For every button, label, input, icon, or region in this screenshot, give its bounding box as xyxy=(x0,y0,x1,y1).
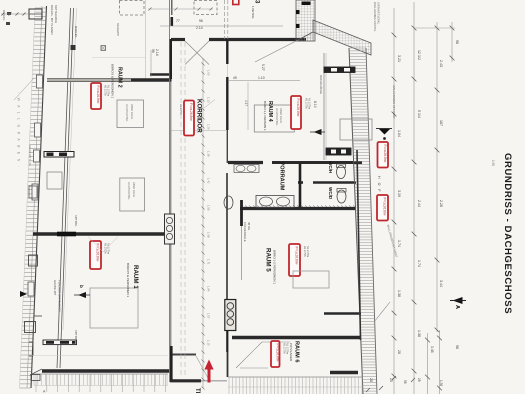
svg-text:b: b xyxy=(79,285,84,288)
svg-text:1.10: 1.10 xyxy=(258,76,265,80)
small x-box marker xyxy=(101,46,106,51)
svg-text:VORRAUM: VORRAUM xyxy=(279,162,285,191)
shaft right w/ circles xyxy=(225,300,236,331)
wall W9 WC/H-WC/D xyxy=(298,181,303,184)
RAUM6 diagonal leaders xyxy=(236,342,262,368)
svg-text:WALLGRABEN FIRSTPL.: WALLGRABEN FIRSTPL. xyxy=(373,2,377,32)
door swing RAUM1 xyxy=(88,237,103,253)
svg-text:IM DG: IM DG xyxy=(247,222,251,230)
red area boxes xyxy=(91,83,101,109)
svg-text:- W A L L G R A B E N -: - W A L L G R A B E N - xyxy=(17,92,21,169)
svg-text:1.00: 1.00 xyxy=(207,70,211,76)
wall stub x240 xyxy=(240,200,243,226)
wall corridor left xyxy=(169,0,171,382)
wall W10 top of RAUM5 xyxy=(240,207,355,210)
svg-text:1.84: 1.84 xyxy=(207,286,211,292)
svg-text:TI: TI xyxy=(194,388,200,394)
svg-text:3.45: 3.45 xyxy=(430,346,434,353)
left band bay steps xyxy=(36,75,42,88)
svg-text:1.04: 1.04 xyxy=(397,130,401,137)
svg-text:WC/D: WC/D xyxy=(328,187,333,200)
WC fixtures xyxy=(337,166,346,179)
svg-text:1.55: 1.55 xyxy=(207,205,211,211)
lower window beam bar xyxy=(43,340,77,345)
svg-text:ÜBER DACH: ÜBER DACH xyxy=(132,182,136,197)
RAUM5 rooflight xyxy=(293,271,329,288)
svg-text:RAUM 2: RAUM 2 xyxy=(117,67,123,88)
svg-text:1.68: 1.68 xyxy=(207,232,211,238)
svg-text:1.42: 1.42 xyxy=(207,178,211,184)
svg-text:96: 96 xyxy=(199,19,203,23)
corridor dashed lines xyxy=(180,42,182,378)
svg-text:4.17: 4.17 xyxy=(244,100,248,106)
svg-text:5 1/4: 5 1/4 xyxy=(417,110,421,118)
svg-text:1.38: 1.38 xyxy=(439,380,443,386)
wall W8 top of VORRAUM/WC xyxy=(228,161,263,164)
wall corridor right xyxy=(224,0,226,39)
RAUM4 right wall xyxy=(323,53,325,160)
dimension line D1 xyxy=(393,8,395,394)
wall VORRAUM/WC divider xyxy=(299,163,302,207)
svg-text:96: 96 xyxy=(403,380,407,384)
svg-text:28: 28 xyxy=(369,378,373,382)
svg-text:77: 77 xyxy=(176,19,180,23)
right inner wall line xyxy=(357,150,361,340)
svg-text:1.10: 1.10 xyxy=(207,340,211,346)
section marker a2 xyxy=(376,128,392,130)
svg-text:F=ca.26.8m²: F=ca.26.8m² xyxy=(189,103,193,121)
svg-text:28: 28 xyxy=(417,378,421,382)
svg-text:BÜRO 5 & PERSONEN 1: BÜRO 5 & PERSONEN 1 xyxy=(111,64,115,99)
svg-text:1.13: 1.13 xyxy=(207,97,211,103)
svg-text:1 NETZFL: 1 NETZFL xyxy=(251,6,255,19)
section marker A right xyxy=(453,297,463,304)
svg-text:F=ca.26.8m²: F=ca.26.8m² xyxy=(383,198,387,216)
svg-text:KORRIDOR: KORRIDOR xyxy=(196,99,203,133)
svg-text:RAUM 5: RAUM 5 xyxy=(265,248,272,272)
wall W11 corridor south xyxy=(172,354,196,356)
svg-text:SPITZBD.: SPITZBD. xyxy=(74,215,78,227)
wall W3 RAUM2/RAUM1 xyxy=(33,232,171,235)
svg-text:GAUBE MIT: GAUBE MIT xyxy=(53,280,57,296)
svg-text:BÜRO 1-2 PERSONEN 1: BÜRO 1-2 PERSONEN 1 xyxy=(273,250,277,284)
svg-text:1.39: 1.39 xyxy=(207,151,211,157)
svg-text:KÜCHENZEILE: KÜCHENZEILE xyxy=(243,222,247,242)
chimney bar 1 xyxy=(324,67,355,73)
section marker b right xyxy=(78,292,86,298)
svg-text:1.38: 1.38 xyxy=(417,330,421,337)
svg-text:98: 98 xyxy=(455,345,459,349)
svg-text:PUTZLAGER: PUTZLAGER xyxy=(289,343,293,362)
svg-text:1.74: 1.74 xyxy=(397,240,401,247)
svg-text:WC/H: WC/H xyxy=(328,161,333,174)
svg-text:FLACHEN SATTELDACH: FLACHEN SATTELDACH xyxy=(58,280,62,312)
svg-text:28: 28 xyxy=(397,350,401,354)
svg-text:GRUNDRISS - DACHGESCHOSS: GRUNDRISS - DACHGESCHOSS xyxy=(502,153,513,314)
right exterior hatched band xyxy=(349,48,363,394)
section marker a1 xyxy=(314,129,322,135)
corridor center dim column xyxy=(202,58,204,388)
svg-text:2.44: 2.44 xyxy=(417,200,421,207)
svg-text:RAUM 1: RAUM 1 xyxy=(132,265,139,289)
svg-text:1.38: 1.38 xyxy=(397,290,401,297)
svg-text:2.14: 2.14 xyxy=(155,49,159,56)
diagonal roof band xyxy=(313,20,371,55)
svg-text:DACHFL.: DACHFL. xyxy=(74,26,78,39)
svg-text:F=ca.26.8m²: F=ca.26.8m² xyxy=(295,247,299,265)
svg-text:NL 2.70m: NL 2.70m xyxy=(107,85,111,96)
svg-text:187: 187 xyxy=(439,120,443,126)
wall W2 top of RAUM2 xyxy=(47,78,131,81)
svg-text:1.71: 1.71 xyxy=(207,259,211,265)
svg-text:1.26: 1.26 xyxy=(207,124,211,130)
red north arrow xyxy=(204,360,213,383)
svg-text:F=ca.26.8m²: F=ca.26.8m² xyxy=(383,145,387,163)
svg-text:ÜBER DACH: ÜBER DACH xyxy=(279,108,283,123)
wall: left inner face xyxy=(57,8,71,368)
chimney bar 2 xyxy=(326,148,351,155)
svg-text:3.21: 3.21 xyxy=(397,55,401,62)
svg-text:GAUBE MIT FL.SD.: GAUBE MIT FL.SD. xyxy=(28,145,31,167)
basins top vorraum xyxy=(234,165,259,173)
svg-text:2.28: 2.28 xyxy=(439,200,443,207)
svg-text:RAUM 6: RAUM 6 xyxy=(294,341,300,362)
svg-text:ÜBER DACH: ÜBER DACH xyxy=(130,104,134,119)
svg-text:5.27: 5.27 xyxy=(261,64,265,71)
svg-text:2.43: 2.43 xyxy=(439,60,443,67)
svg-text:F=ca.26.8m²: F=ca.26.8m² xyxy=(296,99,300,117)
svg-text:1.74: 1.74 xyxy=(417,260,421,267)
basins counter xyxy=(256,196,294,208)
corridor entrance door swing xyxy=(196,356,208,378)
svg-text:H O F: H O F xyxy=(377,176,381,193)
section marker b left xyxy=(20,291,27,297)
bottom eave band right xyxy=(228,376,363,378)
svg-text:49: 49 xyxy=(233,76,237,80)
shaft left w/ circles xyxy=(165,214,175,244)
svg-text:1.07: 1.07 xyxy=(207,313,211,319)
svg-text:SPITZBD.: SPITZBD. xyxy=(74,330,78,342)
svg-text:A: A xyxy=(454,305,460,309)
svg-text:98: 98 xyxy=(455,40,459,44)
left band window boxes xyxy=(29,9,42,19)
svg-text:SCHLEPP: SCHLEPP xyxy=(116,23,120,36)
svg-text:GIPSKART.VERKL.: GIPSKART.VERKL. xyxy=(377,2,381,25)
svg-text:2.14: 2.14 xyxy=(196,26,203,30)
svg-text:DACHFL.: DACHFL. xyxy=(2,10,6,21)
svg-text:BÜRO 1,1 PERSON 1: BÜRO 1,1 PERSON 1 xyxy=(263,101,267,131)
svg-text:LICHTKUPPEL: LICHTKUPPEL xyxy=(127,182,131,200)
svg-text:NL 2.70m: NL 2.70m xyxy=(308,98,312,109)
bottom-left eave band xyxy=(31,373,168,375)
wall W5 RAUM5/RAUM6 xyxy=(232,336,361,339)
svg-text:NL 2.70m: NL 2.70m xyxy=(306,246,310,257)
svg-text:F=ca.26.8m²: F=ca.26.8m² xyxy=(275,344,279,362)
svg-text:12 1/2: 12 1/2 xyxy=(417,50,421,60)
wall W4 bottom of RAUM1 xyxy=(42,369,172,373)
svg-text:SATTELDACH: SATTELDACH xyxy=(54,5,58,23)
wall W6 xyxy=(324,312,361,315)
wall W1 top of RAUM4 xyxy=(171,38,185,41)
svg-text:3.44: 3.44 xyxy=(439,280,443,287)
svg-text:LICHTKUPPEL: LICHTKUPPEL xyxy=(125,104,129,122)
wall W7 bottom bar right xyxy=(330,371,358,374)
wall: left exterior band xyxy=(27,6,42,388)
rooflight boxes xyxy=(120,1,145,16)
svg-text:8.10: 8.10 xyxy=(313,101,317,108)
bottom-left corner notch xyxy=(29,341,33,343)
svg-text:3.19: 3.19 xyxy=(397,190,401,197)
svg-text:DACHFL. MIT PLADEN: DACHFL. MIT PLADEN xyxy=(50,5,54,34)
svg-text:LICHTKUPPEL: LICHTKUPPEL xyxy=(275,108,279,126)
svg-text:F=ca.26.8m²: F=ca.26.8m² xyxy=(96,86,100,104)
svg-text:96: 96 xyxy=(151,49,155,53)
svg-text:1:50: 1:50 xyxy=(491,160,495,166)
svg-text:DACHFLÄCHE: DACHFLÄCHE xyxy=(319,75,323,94)
svg-text:BÜRO 5 & PERSONEN 1: BÜRO 5 & PERSONEN 1 xyxy=(126,263,130,298)
